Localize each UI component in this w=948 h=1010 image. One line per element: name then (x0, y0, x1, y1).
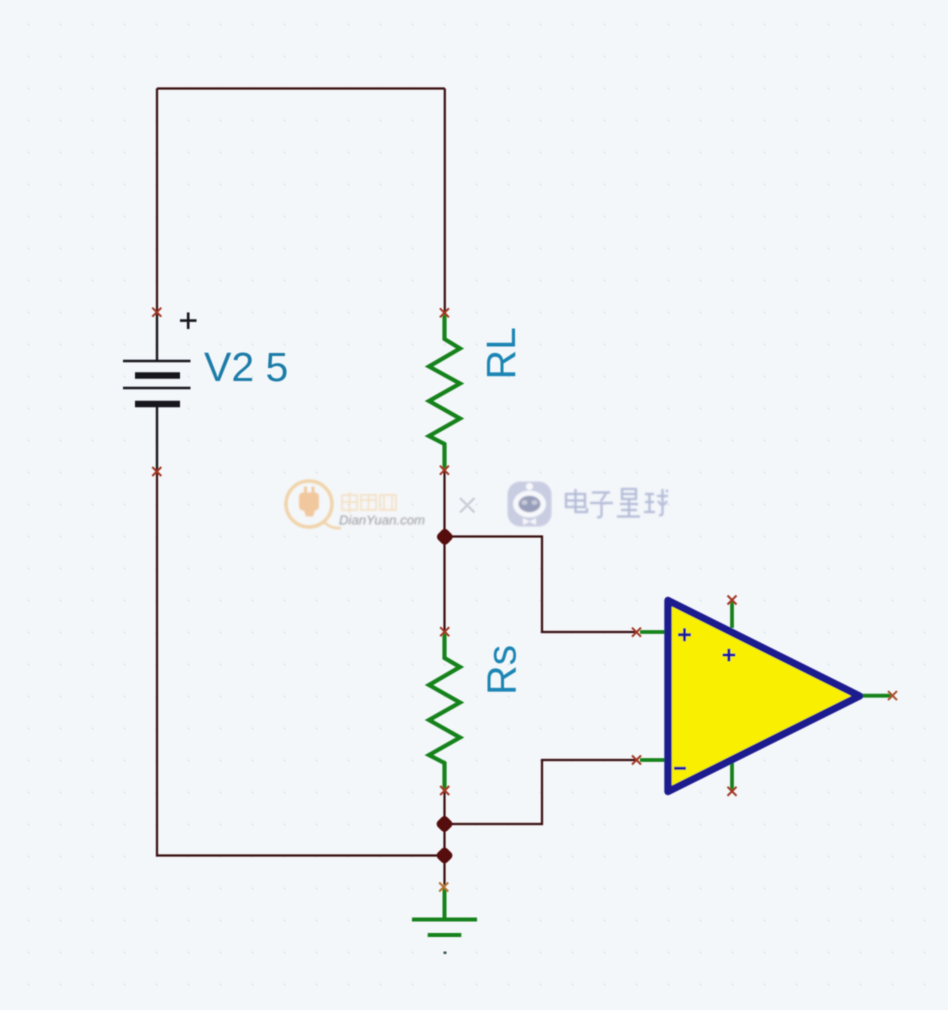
svg-text:V2 5: V2 5 (204, 344, 288, 390)
svg-text:DianYuan.com: DianYuan.com (339, 513, 425, 528)
svg-text:Rs: Rs (479, 645, 525, 695)
svg-text:RL: RL (478, 327, 524, 379)
